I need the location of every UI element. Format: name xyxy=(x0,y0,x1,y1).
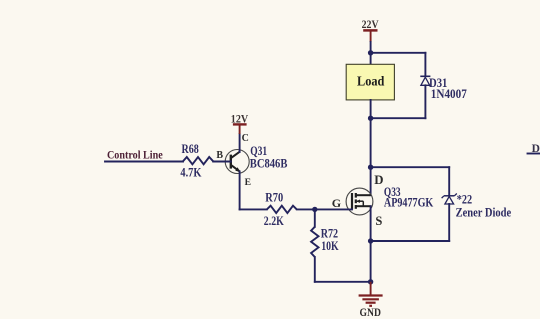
svg-text:D: D xyxy=(532,143,540,155)
svg-text:*22: *22 xyxy=(457,193,472,207)
transistor Q31 xyxy=(225,150,249,174)
wire R72 bottom to ground junction xyxy=(315,281,371,283)
wire collector xyxy=(239,134,241,152)
svg-text:B: B xyxy=(216,150,223,161)
svg-text:R68: R68 xyxy=(182,142,199,156)
resistor R72 xyxy=(311,209,339,281)
node junction drain branch xyxy=(368,165,373,170)
svg-text:GND: GND xyxy=(360,307,381,319)
wire drain branch to zener xyxy=(371,166,450,168)
svg-text:1N4007: 1N4007 xyxy=(431,87,467,101)
svg-text:Control Line: Control Line xyxy=(107,149,163,161)
node junction gate xyxy=(312,207,317,212)
svg-text:BC846B: BC846B xyxy=(250,156,288,170)
wire gate xyxy=(315,208,352,210)
node junction load bottom xyxy=(368,116,373,121)
svg-text:Zener Diode: Zener Diode xyxy=(456,206,512,220)
svg-text:C: C xyxy=(242,133,249,144)
wire source to bottom junction xyxy=(370,206,372,282)
node junction source bottom xyxy=(368,238,373,243)
wire bottom of diode branch xyxy=(371,117,426,119)
resistor R70 xyxy=(240,190,315,228)
wire zener bottom return xyxy=(371,240,450,242)
resistor R68 xyxy=(180,142,213,180)
wire top to diode branch xyxy=(371,52,426,54)
wire control line xyxy=(105,161,183,163)
diode D31 xyxy=(420,76,467,101)
wire diode to bottom xyxy=(424,85,426,118)
svg-text:R70: R70 xyxy=(265,190,283,204)
wire net D right edge xyxy=(528,153,540,155)
power 12V xyxy=(231,113,249,134)
svg-text:E: E xyxy=(245,177,251,188)
svg-text:G: G xyxy=(332,196,341,210)
power 22V xyxy=(362,19,380,42)
svg-text:Load: Load xyxy=(357,74,385,89)
node junction ground xyxy=(368,279,373,284)
wire zener branch down xyxy=(448,167,450,195)
ground xyxy=(359,282,383,319)
wire load to drain xyxy=(370,100,372,195)
svg-text:4.7K: 4.7K xyxy=(180,166,201,180)
wire zener to bottom xyxy=(448,204,450,241)
wire base xyxy=(213,161,231,163)
wire emitter xyxy=(239,171,241,209)
svg-text:2.2K: 2.2K xyxy=(264,214,284,228)
svg-text:10K: 10K xyxy=(321,239,339,253)
wire 22V to load xyxy=(370,42,372,65)
svg-text:S: S xyxy=(375,214,382,228)
svg-text:AP9477GK: AP9477GK xyxy=(384,195,434,209)
zener diode *22 xyxy=(442,193,512,220)
mosfet Q33 xyxy=(346,188,373,215)
node junction top xyxy=(368,50,373,55)
svg-text:D: D xyxy=(374,173,383,187)
wire diode branch down xyxy=(424,53,426,76)
load box xyxy=(346,64,394,100)
